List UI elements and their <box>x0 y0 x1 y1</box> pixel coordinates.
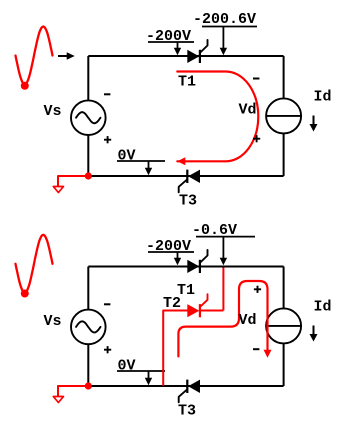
svg-text:-0.6V: -0.6V <box>192 222 237 239</box>
svg-text:-200.6V: -200.6V <box>193 11 256 28</box>
svg-text:0V: 0V <box>118 148 136 165</box>
svg-text:Vd: Vd <box>239 102 257 119</box>
svg-text:Id: Id <box>314 298 332 315</box>
svg-text:Vd: Vd <box>239 312 257 329</box>
svg-text:T3: T3 <box>178 403 196 420</box>
svg-text:Id: Id <box>314 88 332 105</box>
svg-text:0V: 0V <box>118 358 136 375</box>
svg-text:T2: T2 <box>163 295 181 312</box>
svg-text:T1: T1 <box>178 74 196 91</box>
svg-text:Vs: Vs <box>44 103 62 120</box>
svg-text:-200V: -200V <box>146 28 191 45</box>
svg-text:-200V: -200V <box>146 238 191 255</box>
svg-text:Vs: Vs <box>44 313 62 330</box>
svg-text:T3: T3 <box>179 193 197 210</box>
